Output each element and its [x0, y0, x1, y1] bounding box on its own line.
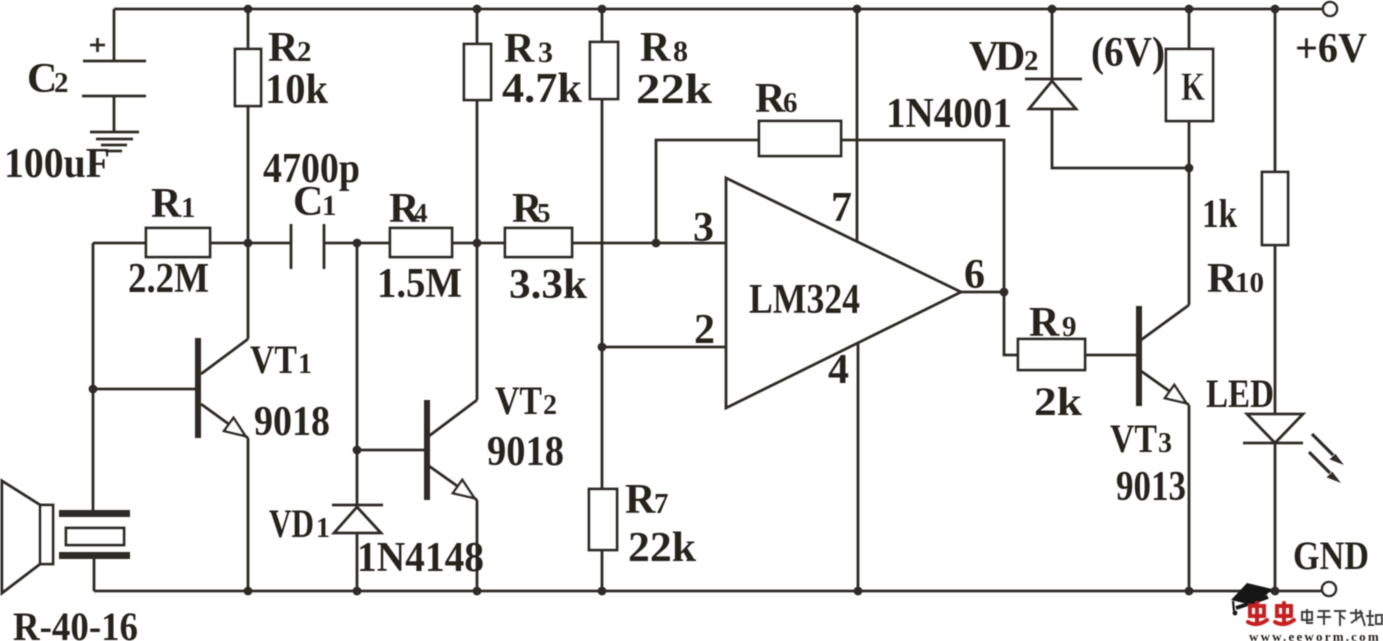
svg-text:1.5M: 1.5M: [377, 261, 462, 307]
svg-text:6: 6: [783, 87, 798, 119]
svg-text:2: 2: [694, 307, 715, 353]
svg-text:R: R: [755, 76, 786, 122]
svg-text:4: 4: [414, 198, 428, 228]
svg-text:1N4148: 1N4148: [357, 535, 484, 581]
svg-text:8: 8: [673, 35, 688, 68]
svg-text:10k: 10k: [265, 67, 329, 113]
svg-text:9018: 9018: [254, 399, 330, 445]
svg-text:1: 1: [181, 192, 196, 224]
svg-text:3.3k: 3.3k: [509, 262, 588, 308]
svg-text:1: 1: [298, 349, 312, 380]
svg-text:GND: GND: [1293, 533, 1369, 578]
svg-text:3: 3: [693, 205, 714, 251]
svg-text:2: 2: [54, 67, 69, 99]
svg-text:6: 6: [964, 252, 985, 298]
svg-text:2k: 2k: [1034, 379, 1083, 424]
svg-text:100uF: 100uF: [4, 141, 110, 187]
svg-text:7: 7: [654, 488, 669, 520]
svg-text:1: 1: [316, 513, 330, 544]
svg-text:VT: VT: [495, 378, 542, 423]
svg-text:2: 2: [1024, 45, 1039, 77]
svg-text:C: C: [293, 179, 323, 225]
svg-text:VT: VT: [250, 337, 297, 382]
svg-text:D: D: [995, 34, 1025, 80]
svg-text:2.2M: 2.2M: [128, 256, 209, 302]
svg-text:K: K: [1181, 64, 1205, 109]
svg-text:22k: 22k: [628, 525, 697, 571]
svg-text:R: R: [268, 25, 299, 71]
svg-text:R: R: [151, 181, 182, 227]
svg-text:VT: VT: [1110, 416, 1157, 461]
svg-text:(6V): (6V): [1091, 30, 1165, 76]
svg-text:VD: VD: [269, 501, 314, 546]
svg-text:www.eeworm.com: www.eeworm.com: [1249, 629, 1381, 641]
svg-text:5: 5: [537, 198, 551, 228]
svg-text:1N4001: 1N4001: [886, 91, 1012, 137]
svg-text:C: C: [27, 56, 57, 102]
svg-text:3: 3: [538, 36, 553, 69]
svg-text:R: R: [640, 25, 671, 71]
svg-text:4.7k: 4.7k: [502, 66, 583, 112]
svg-text:R: R: [1029, 300, 1060, 346]
svg-text:22k: 22k: [636, 67, 713, 113]
svg-text:10: 10: [1235, 267, 1264, 299]
svg-text:4: 4: [828, 347, 849, 393]
svg-text:2: 2: [297, 36, 312, 68]
svg-text:+6V: +6V: [1295, 26, 1367, 72]
svg-text:2: 2: [543, 390, 557, 421]
svg-text:1: 1: [322, 190, 337, 222]
svg-text:R-40-16: R-40-16: [13, 604, 138, 641]
svg-text:7: 7: [831, 185, 852, 231]
svg-text:R: R: [625, 477, 656, 523]
svg-text:9013: 9013: [1116, 464, 1186, 510]
svg-text:3: 3: [1158, 428, 1172, 459]
svg-text:9018: 9018: [487, 429, 564, 475]
svg-text:LED: LED: [1206, 371, 1274, 416]
svg-text:R: R: [1207, 256, 1238, 302]
svg-text:LM324: LM324: [749, 277, 860, 323]
svg-text:1k: 1k: [1202, 191, 1238, 236]
svg-text:9: 9: [1062, 311, 1077, 343]
